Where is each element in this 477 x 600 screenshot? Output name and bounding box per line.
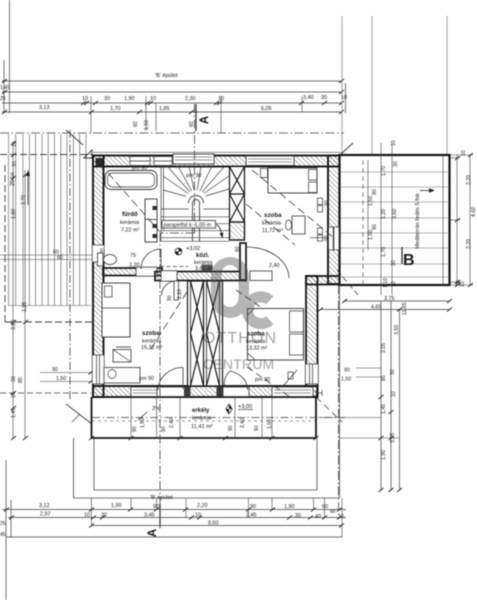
- roof pitch diagonal top: [66, 130, 83, 145]
- svg-text:1,90: 1,90: [124, 96, 135, 102]
- bed SW: [102, 283, 130, 337]
- svg-text:2,20: 2,20: [129, 263, 140, 269]
- stair newel mask: [185, 190, 207, 212]
- top dim texts row2: [0, 85, 272, 112]
- svg-text:pm 90: pm 90: [139, 376, 154, 382]
- svg-text:+3,02: +3,02: [186, 246, 200, 252]
- bottom wall balcony door left: [157, 387, 187, 397]
- balcony jamb extension lines: [131, 397, 272, 438]
- top boundary line 1: [2, 80, 342, 82]
- step wall horizontal right: [306, 276, 340, 285]
- svg-text:3,12: 3,12: [39, 503, 50, 509]
- right dim line 4.65: [320, 309, 450, 311]
- svg-text:kerámia: kerámia: [262, 221, 281, 227]
- bathtub: [105, 171, 157, 190]
- top dimension block: [2, 0, 346, 113]
- svg-text:1,50: 1,50: [56, 376, 66, 382]
- svg-text:30: 30: [12, 161, 18, 167]
- svg-text:1,85: 1,85: [159, 106, 170, 112]
- right dim line 3.75: [344, 300, 450, 302]
- svg-text:3,60: 3,60: [392, 209, 398, 219]
- svg-text:3,13: 3,13: [39, 105, 50, 111]
- svg-text:1,50: 1,50: [341, 377, 351, 383]
- window W3 top wall right room: [246, 156, 294, 166]
- gutter corner mark top-left: [84, 150, 92, 158]
- svg-text:85: 85: [381, 375, 387, 381]
- AREA B outline: [340, 155, 450, 285]
- svg-text:25: 25: [0, 521, 6, 527]
- svg-text:közl.: közl.: [196, 253, 210, 259]
- svg-text:B: B: [403, 252, 415, 269]
- right area verticals from top: [342, 16, 447, 155]
- left roof bottom line: [8, 305, 91, 307]
- balcony level marker +3.00: [226, 404, 253, 414]
- roof edge line above top wall: [93, 151, 342, 153]
- balcony axis dashdot lines: [92, 417, 345, 419]
- svg-text:Mediterrán fedés 5 fok: Mediterrán fedés 5 fok: [415, 193, 421, 249]
- svg-text:2,40: 2,40: [240, 418, 246, 428]
- right vertical chains: [380, 301, 382, 490]
- svg-text:2,10: 2,10: [177, 289, 183, 299]
- svg-text:1,50: 1,50: [368, 230, 374, 240]
- svg-text:kerámia: kerámia: [120, 220, 139, 226]
- area B inner edge line right: [442, 156, 444, 284]
- right wall lower: [305, 276, 318, 397]
- svg-text:90: 90: [153, 504, 159, 510]
- area B right dim chains: [450, 155, 473, 285]
- svg-text:30: 30: [11, 376, 17, 382]
- svg-text:7,22 m²: 7,22 m²: [121, 228, 139, 234]
- svg-text:A: A: [199, 116, 211, 124]
- left roof dashed boundary left: [4, 165, 6, 322]
- furdo window dim lines left: [0, 254, 100, 256]
- left dashed line at bottom wall level: [0, 392, 91, 394]
- svg-text:11,41 m²: 11,41 m²: [191, 424, 213, 430]
- svg-text:30: 30: [393, 161, 399, 167]
- svg-text:szoba: szoba: [264, 212, 282, 219]
- svg-text:30: 30: [321, 95, 327, 101]
- svg-text:8,60: 8,60: [208, 521, 219, 527]
- left dim chain outer: [13, 143, 25, 438]
- top vertical extension lines to plan: [91, 96, 302, 133]
- left roof ridge dashdot vertical: [69, 130, 71, 399]
- watermark OC logo letter C: [247, 297, 269, 324]
- svg-text:10: 10: [391, 140, 397, 146]
- bottom dim line row1: [2, 509, 346, 511]
- area B internal dim chains: [363, 143, 392, 295]
- svg-text:pm 30: pm 30: [186, 173, 202, 179]
- section marker A bottom: [159, 504, 161, 528]
- svg-text:parapetfal k: 1,00 m: parapetfal k: 1,00 m: [164, 223, 212, 229]
- svg-text:1,45: 1,45: [381, 404, 387, 414]
- svg-text:1,90: 1,90: [284, 504, 295, 510]
- area B chain labels: [368, 140, 399, 287]
- top boundary line 2: [2, 91, 342, 93]
- svg-text:kerámia: kerámia: [192, 416, 211, 422]
- SE radiator icon: [283, 370, 297, 386]
- bottom ticks: [4, 508, 344, 528]
- svg-text:pm 90: pm 90: [255, 377, 270, 383]
- svg-text:60: 60: [57, 255, 63, 261]
- furdo south wall: [103, 267, 162, 276]
- top dim texts row1: [82, 95, 347, 102]
- top wall: [84, 150, 340, 167]
- svg-text:3,05: 3,05: [381, 343, 387, 353]
- balcony door dims rotated left: [132, 418, 273, 432]
- svg-text:2,20: 2,20: [197, 503, 208, 509]
- window W2 stair window top wall: [173, 154, 214, 164]
- svg-text:1,45: 1,45: [0, 85, 10, 91]
- svg-text:1,90: 1,90: [381, 450, 387, 460]
- svg-text:3,75: 3,75: [384, 296, 395, 302]
- svg-text:1,70: 1,70: [381, 166, 387, 176]
- watermark group semi-transparent on top: [203, 257, 277, 372]
- left roof slope arrow: [27, 172, 29, 205]
- svg-text:erkély: erkély: [192, 408, 210, 414]
- right chain ticks: [318, 283, 460, 492]
- bathroom cabinet tall: [145, 199, 157, 242]
- left wall: [92, 156, 105, 398]
- svg-text:90: 90: [52, 367, 58, 373]
- bottom wall window left pm90: [131, 387, 165, 397]
- stair lower treads: [161, 208, 229, 210]
- parapet wall label box: [162, 221, 216, 229]
- hall east jamb wall: [240, 243, 246, 280]
- top dim ticks: [2, 79, 344, 114]
- bottom dim line row3: [91, 525, 342, 527]
- svg-text:3,45: 3,45: [144, 513, 155, 519]
- svg-text:1,10: 1,10: [383, 278, 389, 288]
- area B roofing lines: [340, 172, 448, 277]
- svg-text:'B' épület: 'B' épület: [155, 73, 178, 79]
- svg-text:1,90: 1,90: [111, 503, 122, 509]
- svg-text:2,97: 2,97: [40, 512, 51, 518]
- svg-text:2,40: 2,40: [269, 263, 280, 269]
- bottom vertical extensions: [92, 498, 343, 537]
- bottom dim texts row1: [39, 503, 336, 515]
- svg-text:10: 10: [338, 514, 344, 520]
- svg-text:90: 90: [228, 425, 234, 431]
- balcony bottom tick marks: [89, 436, 319, 440]
- window W1b top wall: [154, 157, 172, 166]
- stair radial treads: [167, 166, 196, 199]
- svg-text:10: 10: [82, 96, 88, 102]
- svg-text:3,40: 3,40: [303, 95, 314, 101]
- svg-text:2,20: 2,20: [466, 175, 472, 185]
- svg-text:90: 90: [132, 426, 138, 432]
- desk NE: [292, 216, 305, 234]
- svg-text:3,70: 3,70: [21, 195, 27, 205]
- SE slope dashed diagonal: [236, 290, 262, 308]
- left chain ticks: [11, 141, 28, 440]
- bed NE: [268, 168, 317, 193]
- svg-text:10: 10: [391, 391, 397, 397]
- hall east big door arc: [246, 247, 289, 278]
- center X void wall: [188, 281, 223, 386]
- svg-text:45: 45: [0, 532, 6, 538]
- hall door arc to SW room: [162, 281, 177, 296]
- roof valley diagonal bottom left: [66, 404, 92, 424]
- svg-text:4,60: 4,60: [471, 207, 477, 217]
- bottom dim line row2: [8, 517, 346, 519]
- svg-text:kerámia: kerámia: [142, 339, 161, 345]
- svg-text:30: 30: [104, 96, 110, 102]
- svg-text:30: 30: [295, 513, 301, 519]
- nightstand NE: [261, 169, 268, 178]
- top dim line row2: [2, 111, 342, 113]
- svg-text:+3,00: +3,00: [238, 404, 252, 410]
- svg-text:2%: 2%: [152, 406, 160, 412]
- svg-text:30: 30: [391, 260, 397, 266]
- svg-text:3,45: 3,45: [246, 513, 257, 519]
- svg-text:A: A: [147, 529, 159, 537]
- svg-text:25: 25: [0, 96, 6, 102]
- center axis dash-dot line top: [0, 132, 344, 134]
- svg-text:90: 90: [324, 235, 330, 241]
- svg-text:1,50: 1,50: [368, 196, 374, 206]
- right horizontal tie lines: [318, 368, 400, 438]
- right wall window: [329, 227, 340, 250]
- svg-text:11,65: 11,65: [402, 302, 408, 315]
- svg-text:CENTRUM: CENTRUM: [203, 356, 274, 372]
- top wall corner post: [96, 158, 104, 166]
- desk SW upper: [113, 350, 131, 363]
- level marker +3.02: [175, 246, 200, 255]
- svg-text:fürdő: fürdő: [122, 211, 138, 218]
- svg-text:2,40: 2,40: [169, 418, 175, 428]
- right wall lower window: [305, 364, 318, 384]
- rotated wall dims above plan: [133, 120, 195, 130]
- stair newel post and arch: [189, 196, 204, 242]
- bed SE: [248, 309, 304, 361]
- section line A-A dashdot: [160, 104, 339, 528]
- section marker A top: [195, 104, 197, 131]
- SW room slope dashed diagonal: [149, 292, 187, 352]
- desk SW lower: [104, 368, 140, 384]
- svg-text:90: 90: [250, 504, 256, 510]
- svg-text:10: 10: [195, 513, 201, 519]
- svg-text:11,72 m²: 11,72 m²: [262, 228, 283, 234]
- svg-text:1,70: 1,70: [110, 106, 121, 112]
- left wall window lower pm90: [92, 355, 104, 384]
- area B roof arrow: [420, 190, 432, 192]
- svg-text:60: 60: [322, 504, 328, 510]
- stair east wall X-braced: [230, 167, 245, 241]
- bottom wall: [93, 386, 318, 397]
- bathroom door arc: [141, 249, 161, 269]
- WC: [98, 253, 117, 266]
- bottom dim texts row2: [40, 512, 344, 521]
- stair east wall lower solid: [230, 222, 245, 240]
- svg-text:90: 90: [324, 200, 330, 206]
- bottom left verticals: [5, 460, 7, 600]
- top dim line row1: [2, 102, 342, 104]
- watermark OC logo letter O: [211, 257, 249, 318]
- parapet arrow: [217, 225, 223, 236]
- bottom full width line: [6, 536, 342, 538]
- NE room slope dashed diagonal: [252, 170, 334, 238]
- svg-text:30: 30: [390, 369, 396, 375]
- svg-text:10: 10: [461, 150, 467, 156]
- X void wall ends into bottom wall: [184, 387, 191, 397]
- svg-text:90: 90: [372, 224, 378, 230]
- hall dashed marks: [160, 266, 188, 268]
- bottom wall window right: [272, 387, 313, 397]
- svg-text:90: 90: [344, 368, 350, 374]
- svg-text:'B' épület: 'B' épület: [150, 495, 173, 501]
- svg-text:1,50: 1,50: [140, 418, 146, 428]
- svg-text:90: 90: [254, 425, 260, 431]
- svg-text:90: 90: [372, 189, 378, 195]
- svg-text:3,50: 3,50: [394, 325, 400, 335]
- stair left edge: [160, 166, 162, 241]
- left window dim lines and texts: [40, 372, 92, 374]
- svg-text:szoba: szoba: [142, 330, 160, 337]
- SW balcony door arc: [158, 368, 183, 391]
- svg-text:75: 75: [130, 253, 136, 259]
- svg-text:2,20: 2,20: [466, 239, 472, 249]
- valley dashed diagonal below B: [337, 270, 358, 295]
- svg-text:60: 60: [133, 121, 139, 127]
- svg-text:90: 90: [161, 426, 167, 432]
- svg-text:pm 90: pm 90: [132, 166, 147, 172]
- left roof area plank lines: [9, 134, 87, 305]
- bottom wall balcony door right: [223, 387, 249, 397]
- left dim chain labels: [10, 141, 28, 418]
- svg-text:1,50: 1,50: [144, 120, 150, 130]
- wardrobe SE: [250, 271, 272, 281]
- svg-text:1,70: 1,70: [381, 247, 387, 257]
- svg-text:90: 90: [235, 246, 241, 252]
- svg-text:OTTHON: OTTHON: [203, 330, 277, 347]
- SE balcony door arc: [224, 371, 230, 387]
- corner diagonal mark top-right: [339, 143, 353, 156]
- svg-text:3,95: 3,95: [22, 302, 28, 312]
- svg-text:4,65: 4,65: [371, 305, 382, 311]
- radiator NE: [318, 198, 323, 205]
- svg-text:90: 90: [330, 509, 336, 515]
- left vertical extension: [9, 0, 11, 113]
- balcony slab outline: [92, 397, 317, 438]
- bathroom slope dashed diagonal: [108, 173, 160, 232]
- window W1 pm90 top wall: [130, 157, 150, 166]
- svg-text:6,05: 6,05: [261, 106, 272, 112]
- left roof dashed eave top: [0, 154, 92, 156]
- svg-text:90: 90: [167, 295, 173, 301]
- left roof dashed boundary bottom: [5, 321, 92, 323]
- svg-text:1,20: 1,20: [381, 209, 387, 219]
- svg-text:85: 85: [18, 377, 24, 383]
- svg-text:10: 10: [391, 281, 397, 287]
- svg-text:1,80: 1,80: [11, 209, 17, 219]
- svg-text:3,61 m²: 3,61 m²: [195, 266, 213, 272]
- right wall upper: [328, 156, 340, 285]
- svg-text:40: 40: [315, 514, 321, 520]
- left wall opening with pm90: [92, 245, 104, 262]
- svg-text:10: 10: [84, 513, 90, 519]
- hall south wall: [155, 271, 246, 282]
- svg-text:2,30: 2,30: [185, 96, 196, 102]
